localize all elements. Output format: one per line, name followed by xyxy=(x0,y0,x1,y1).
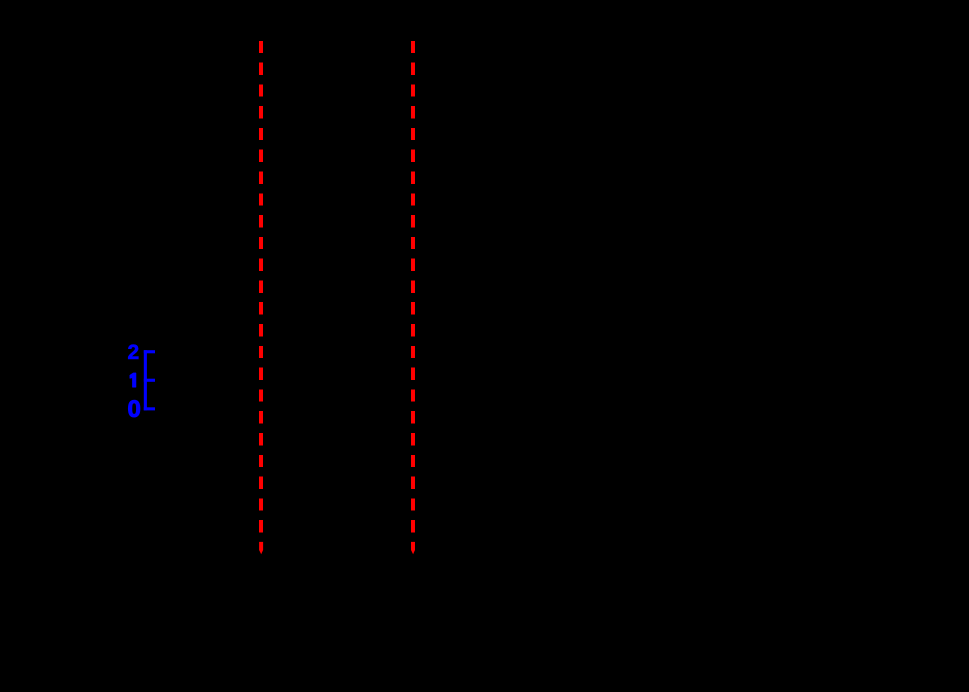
scale label 1 xyxy=(130,373,136,387)
blue scale bracket spine xyxy=(144,350,147,410)
red dashed guide line 1 (left) xyxy=(259,41,263,533)
red dashed guide line 1 arrow tip xyxy=(259,542,263,554)
blue scale bracket tick (0) xyxy=(144,407,155,410)
svg-text:0: 0 xyxy=(128,396,141,423)
blue scale bracket tick (2) xyxy=(144,350,155,353)
blue scale bracket tick (1) xyxy=(144,379,155,382)
red dashed guide line 2 (right) xyxy=(411,41,415,533)
red dashed guide line 2 arrow tip xyxy=(411,542,415,554)
svg-text:2: 2 xyxy=(128,341,140,364)
